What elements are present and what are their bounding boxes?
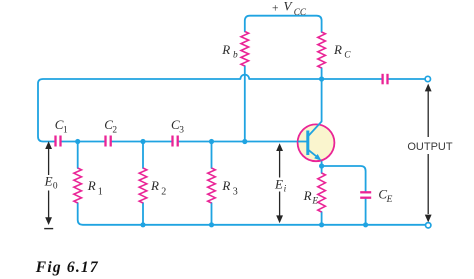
svg-text:1: 1 — [98, 187, 103, 198]
svg-text:R: R — [150, 178, 159, 193]
svg-text:R: R — [87, 178, 96, 193]
svg-text:Fig 6.17: Fig 6.17 — [35, 259, 99, 276]
svg-text:b: b — [233, 50, 238, 60]
svg-text:E: E — [386, 195, 393, 205]
svg-text:R: R — [303, 188, 312, 203]
svg-text:E: E — [311, 197, 318, 207]
svg-text:OUTPUT: OUTPUT — [407, 141, 453, 153]
svg-text:3: 3 — [179, 126, 184, 136]
svg-text:2: 2 — [112, 126, 117, 136]
svg-text:3: 3 — [233, 186, 238, 197]
svg-text:E: E — [44, 174, 53, 189]
svg-text:R: R — [333, 42, 342, 57]
svg-text:R: R — [221, 42, 230, 57]
svg-text:C: C — [344, 51, 351, 61]
svg-text:i: i — [284, 184, 287, 194]
svg-text:2: 2 — [161, 186, 166, 197]
svg-text:R: R — [221, 178, 230, 193]
svg-text:0: 0 — [53, 182, 58, 192]
svg-text:E: E — [274, 176, 283, 191]
svg-text:+: + — [272, 3, 279, 15]
svg-text:1: 1 — [63, 126, 68, 136]
svg-text:CC: CC — [294, 7, 307, 17]
